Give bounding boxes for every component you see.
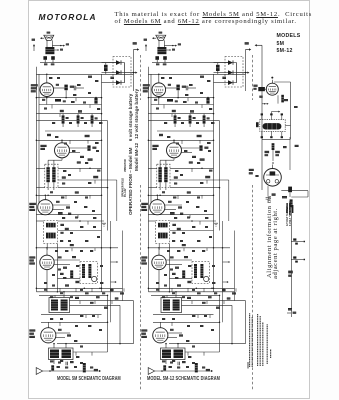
- svg-text:6 VOLT “A” BATTERY: 6 VOLT “A” BATTERY: [289, 201, 292, 226]
- svg-text:6V–12V: 6V–12V: [124, 188, 127, 197]
- svg-text:12 VOLT SUPPLY: 12 VOLT SUPPLY: [286, 206, 289, 226]
- svg-text:VIBRATOR: VIBRATOR: [124, 159, 127, 172]
